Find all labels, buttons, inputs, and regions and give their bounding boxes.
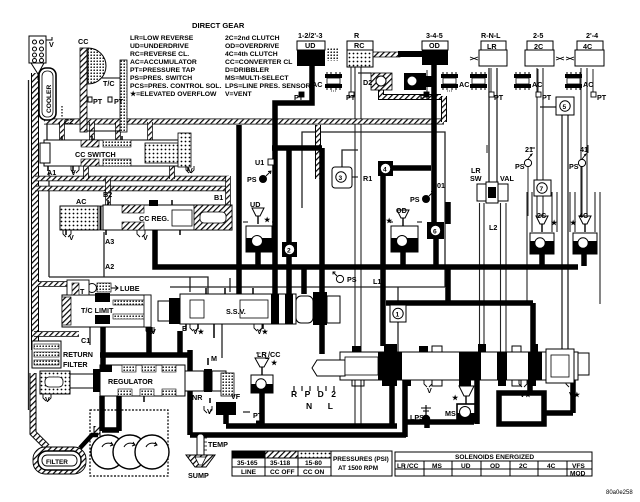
svg-text:AC=ACCUMULATOR: AC=ACCUMULATOR bbox=[130, 59, 197, 66]
svg-text:T/C: T/C bbox=[103, 79, 115, 88]
svg-text:V: V bbox=[71, 168, 76, 177]
svg-text:SOLENOIDS ENERGIZED: SOLENOIDS ENERGIZED bbox=[455, 454, 534, 461]
svg-text:2: 2 bbox=[287, 248, 291, 255]
wire L1 bbox=[170, 287, 445, 305]
svg-text:A2: A2 bbox=[105, 262, 114, 271]
svg-text:CC REG.: CC REG. bbox=[139, 214, 169, 223]
svg-text:V★: V★ bbox=[520, 390, 532, 399]
wire 2C overflow drop bbox=[539, 254, 545, 266]
svg-text:RETURN: RETURN bbox=[63, 350, 93, 359]
wire 2C PT to circled5 bbox=[540, 106, 556, 108]
svg-text:V: V bbox=[207, 407, 212, 416]
wire pcs line bbox=[190, 350, 226, 435]
svg-text:C2: C2 bbox=[64, 117, 73, 126]
wire hatched vertical x318 bbox=[315, 125, 321, 179]
T/C LIMIT valve bbox=[62, 280, 152, 332]
wire PT stubs top row bbox=[351, 67, 593, 97]
svg-text:3: 3 bbox=[339, 175, 343, 182]
svg-text:OD: OD bbox=[490, 463, 500, 470]
PT tick bottom bbox=[256, 421, 261, 426]
wire OD feed line bbox=[431, 65, 437, 222]
wire hatched jog x228 bbox=[225, 176, 231, 205]
svg-text:TEMP: TEMP bbox=[208, 440, 228, 449]
svg-text:CC=CONVERTER CL: CC=CONVERTER CL bbox=[225, 59, 292, 66]
CC SWITCH valve bbox=[40, 133, 191, 171]
svg-text:DIRECT GEAR: DIRECT GEAR bbox=[192, 21, 245, 30]
svg-text:1: 1 bbox=[396, 312, 400, 319]
wire circled6 down bbox=[436, 202, 448, 267]
svg-text:LR=LOW REVERSE: LR=LOW REVERSE bbox=[130, 35, 194, 42]
svg-text:A3: A3 bbox=[105, 237, 114, 246]
svg-text:PS: PS bbox=[410, 195, 420, 204]
svg-text:PT=PRESSURE TAP: PT=PRESSURE TAP bbox=[130, 67, 195, 74]
svg-text:2C=2nd CLUTCH: 2C=2nd CLUTCH bbox=[225, 35, 280, 42]
wire 4C overflow drop bbox=[581, 254, 587, 266]
svg-text:N L: N L bbox=[306, 401, 333, 411]
svg-text:L1: L1 bbox=[373, 277, 381, 286]
wire hatched bus y179 bbox=[35, 176, 229, 182]
svg-text:4C: 4C bbox=[547, 463, 556, 470]
AC accumulator symbols bbox=[325, 72, 582, 91]
svg-text:★: ★ bbox=[451, 393, 459, 402]
wire lube feed bbox=[67, 286, 88, 288]
svg-text:D=DRIBBLER: D=DRIBBLER bbox=[225, 67, 269, 74]
svg-text:RC: RC bbox=[354, 41, 364, 50]
PT tick squares bbox=[299, 92, 596, 97]
svg-text:M: M bbox=[211, 354, 217, 363]
svg-text:PS: PS bbox=[515, 162, 525, 171]
svg-text:LPS=LINE PRES. SENSOR: LPS=LINE PRES. SENSOR bbox=[225, 83, 311, 90]
wire lps line bbox=[424, 422, 430, 428]
svg-text:PT: PT bbox=[93, 97, 103, 106]
svg-text:T: T bbox=[80, 287, 85, 296]
svg-text:MS: MS bbox=[445, 409, 456, 418]
svg-text:AT 1500 RPM: AT 1500 RPM bbox=[338, 465, 378, 472]
svg-text:AC: AC bbox=[76, 197, 86, 206]
wire manual valve bottom loop bbox=[190, 380, 406, 437]
circled5 box bbox=[556, 97, 574, 115]
svg-text:A1: A1 bbox=[47, 168, 56, 177]
svg-text:★: ★ bbox=[569, 218, 577, 227]
D1 dribbler bbox=[404, 73, 433, 90]
OD clutch box bbox=[422, 41, 448, 65]
svg-text:PT: PT bbox=[294, 93, 304, 102]
svg-text:FILTER: FILTER bbox=[63, 360, 88, 369]
svg-text:V★: V★ bbox=[193, 327, 205, 336]
svg-text:VFS: VFS bbox=[572, 463, 585, 470]
wire RC branch to circled3 bbox=[342, 150, 358, 167]
svg-text:U1: U1 bbox=[255, 158, 264, 167]
svg-text:80a0e258: 80a0e258 bbox=[606, 490, 633, 496]
PCS solenoid bbox=[216, 402, 236, 415]
wire hatched return segment bbox=[34, 331, 79, 337]
wire regulator down left bbox=[102, 327, 119, 431]
svg-text:5: 5 bbox=[563, 104, 567, 111]
svg-text:V=VENT: V=VENT bbox=[225, 91, 252, 98]
vent box top-left bbox=[29, 36, 52, 80]
wire LRL/CC drop bbox=[259, 393, 265, 426]
svg-text:V: V bbox=[143, 233, 148, 242]
PIPES-HATCHED bbox=[33, 73, 444, 447]
svg-text:AC: AC bbox=[532, 80, 542, 89]
svg-text:4C: 4C bbox=[579, 211, 588, 220]
svg-text:PT: PT bbox=[494, 93, 504, 102]
svg-text:LINE: LINE bbox=[241, 469, 257, 476]
svg-text:REGULATOR: REGULATOR bbox=[108, 377, 154, 386]
svg-text:7: 7 bbox=[540, 186, 544, 193]
svg-text:★: ★ bbox=[270, 358, 278, 367]
svg-text:OD: OD bbox=[396, 206, 407, 215]
UD clutch box bbox=[297, 41, 338, 66]
svg-text:MS: MS bbox=[432, 463, 442, 470]
svg-text:CC OFF: CC OFF bbox=[270, 469, 295, 476]
wire hatched bus y122 bbox=[44, 119, 444, 125]
circled1 bbox=[390, 305, 406, 322]
wire line x239 bbox=[236, 125, 242, 294]
svg-text:OD: OD bbox=[429, 41, 440, 50]
svg-text:SUMP: SUMP bbox=[188, 471, 209, 480]
wire LPS stub bbox=[425, 405, 427, 415]
pressure table bbox=[232, 451, 392, 476]
PS circles 21/41 bbox=[487, 145, 588, 167]
svg-text:OD=OVERDRIVE: OD=OVERDRIVE bbox=[225, 43, 280, 50]
wire hatched stub x444 bbox=[441, 96, 447, 122]
svg-text:/CC: /CC bbox=[407, 463, 419, 470]
wire main line bus y267 bbox=[155, 230, 578, 267]
RC clutch box bbox=[347, 41, 373, 67]
svg-text:CC ON: CC ON bbox=[303, 469, 324, 476]
svg-text:35-165: 35-165 bbox=[237, 460, 258, 467]
svg-text:UD: UD bbox=[305, 41, 315, 50]
wire OD overflow drop bbox=[400, 252, 406, 267]
svg-text:2'-4: 2'-4 bbox=[586, 31, 598, 40]
wire 4C column down bbox=[581, 68, 587, 216]
svg-text:S.S.V.: S.S.V. bbox=[226, 307, 246, 316]
svg-text:VAL: VAL bbox=[500, 174, 514, 183]
svg-text:UD=UNDERDRIVE: UD=UNDERDRIVE bbox=[130, 43, 189, 50]
svg-text:PS: PS bbox=[347, 275, 357, 284]
wire LR valve to manual valve bbox=[480, 203, 507, 352]
LRL/CC overflow bbox=[251, 353, 273, 393]
svg-text:PT: PT bbox=[420, 93, 430, 102]
svg-text:35-118: 35-118 bbox=[270, 460, 291, 467]
wire circled1 to manual valve bbox=[397, 322, 399, 352]
PIPES-THICK bbox=[44, 65, 584, 437]
svg-text:AC: AC bbox=[583, 80, 593, 89]
REGULATOR valve bbox=[40, 358, 234, 403]
wire hatched T stub bbox=[38, 281, 67, 287]
AC dotted box + CC REG valve bbox=[60, 200, 232, 235]
svg-text:AC: AC bbox=[459, 80, 469, 89]
svg-text:V: V bbox=[188, 166, 193, 175]
wire NR/VF area bbox=[243, 393, 262, 412]
wire SSV top ports bbox=[190, 277, 230, 292]
4C overflow valve bbox=[573, 216, 597, 254]
wire 2C loop bbox=[527, 192, 557, 302]
svg-text:MS=MULTI-SELECT: MS=MULTI-SELECT bbox=[225, 75, 289, 82]
svg-text:★=ELEVATED OVERFLOW: ★=ELEVATED OVERFLOW bbox=[130, 90, 217, 98]
svg-text:D1: D1 bbox=[425, 77, 434, 86]
wire 4C loop bbox=[570, 192, 600, 304]
svg-text:V: V bbox=[49, 40, 54, 49]
UD overflow valve bbox=[243, 208, 277, 252]
svg-text:MOD: MOD bbox=[570, 471, 586, 478]
svg-text:CC SWITCH: CC SWITCH bbox=[75, 150, 116, 159]
svg-text:2C: 2C bbox=[534, 42, 543, 51]
svg-text:★: ★ bbox=[550, 218, 558, 227]
4C chamber bbox=[566, 41, 604, 66]
cooler bbox=[39, 68, 56, 120]
svg-text:01: 01 bbox=[437, 181, 445, 190]
svg-text:UD: UD bbox=[461, 463, 471, 470]
wire hatched bus y189 bbox=[35, 186, 227, 192]
2C overflow valve bbox=[530, 216, 554, 254]
circled7 bbox=[534, 180, 551, 196]
wire LR column down bbox=[489, 68, 497, 182]
svg-text:VF: VF bbox=[231, 392, 241, 401]
svg-text:CC: CC bbox=[78, 37, 88, 46]
svg-text:4C=4th CLUTCH: 4C=4th CLUTCH bbox=[225, 51, 278, 58]
svg-text:PCS: PCS bbox=[218, 408, 230, 414]
wire cooler feed left bbox=[46, 120, 48, 140]
OD overflow valve bbox=[388, 210, 422, 252]
circled3 box bbox=[332, 167, 358, 188]
FILTER capsule bbox=[33, 435, 98, 474]
PIPES-GRAY bbox=[29, 67, 601, 428]
svg-text:2C: 2C bbox=[537, 211, 546, 220]
svg-text:D2: D2 bbox=[363, 78, 372, 87]
svg-text:21: 21 bbox=[525, 145, 533, 154]
solenoid table bbox=[395, 452, 592, 476]
wire 01 gray loop bbox=[302, 132, 445, 287]
D2 dribbler bbox=[371, 73, 392, 90]
svg-text:LR: LR bbox=[487, 42, 497, 51]
RC-OD link pipe bbox=[373, 52, 400, 57]
T/C converter assembly bbox=[80, 48, 127, 132]
svg-text:LPS: LPS bbox=[410, 413, 424, 422]
circled4 bbox=[378, 161, 393, 176]
svg-text:PRESSURES (PSI): PRESSURES (PSI) bbox=[333, 456, 389, 463]
svg-text:C1: C1 bbox=[81, 336, 90, 345]
svg-text:V★: V★ bbox=[569, 390, 581, 399]
svg-text:PS=PRES. SWITCH: PS=PRES. SWITCH bbox=[130, 75, 192, 82]
MS valve bbox=[457, 381, 475, 422]
wire right bottom box bbox=[499, 380, 573, 424]
wire A2/A3 vertical bbox=[103, 232, 105, 277]
PS dots bbox=[259, 171, 434, 283]
wire E port down bbox=[177, 331, 183, 356]
svg-text:★: ★ bbox=[385, 216, 393, 225]
svg-text:V: V bbox=[427, 386, 432, 395]
C2 dotted stub bbox=[61, 106, 63, 118]
wire regulator top feed bbox=[100, 327, 190, 356]
svg-text:PT: PT bbox=[253, 411, 263, 420]
wire UD line jog bbox=[272, 148, 322, 354]
wire ms drain bbox=[403, 380, 477, 424]
wire left main hatched vertical bbox=[31, 73, 39, 350]
wire hatched D2 run bbox=[381, 90, 441, 97]
svg-text:V: V bbox=[69, 233, 74, 242]
svg-text:RC=REVERSE CL.: RC=REVERSE CL. bbox=[130, 51, 189, 58]
svg-text:PT: PT bbox=[542, 93, 552, 102]
svg-text:1-2/2'-3: 1-2/2'-3 bbox=[298, 31, 322, 40]
pump assembly bbox=[90, 410, 169, 476]
svg-text:LUBE: LUBE bbox=[120, 284, 140, 293]
svg-text:V: V bbox=[45, 395, 50, 404]
svg-text:B2: B2 bbox=[103, 190, 112, 199]
RETURN FILTER bbox=[32, 341, 61, 368]
svg-text:15-80: 15-80 bbox=[305, 460, 322, 467]
S.S.V. valve bbox=[158, 288, 340, 338]
svg-text:2-5: 2-5 bbox=[533, 31, 543, 40]
svg-text:PT: PT bbox=[346, 93, 356, 102]
svg-text:COOLER: COOLER bbox=[46, 85, 53, 113]
svg-text:R: R bbox=[354, 31, 360, 40]
wire outer left pipe bbox=[28, 80, 30, 410]
wire MS to manual valve bbox=[470, 380, 477, 407]
wire hatched bottom-left channel bbox=[33, 373, 47, 447]
svg-text:L2: L2 bbox=[489, 223, 497, 232]
svg-text:2C: 2C bbox=[519, 463, 528, 470]
svg-text:PS: PS bbox=[569, 162, 579, 171]
svg-text:R1: R1 bbox=[363, 174, 372, 183]
2C chamber bbox=[525, 41, 564, 66]
wire hatched pump inlet bbox=[94, 426, 101, 436]
LUBE bbox=[88, 283, 119, 293]
svg-text:PT: PT bbox=[114, 97, 124, 106]
svg-text:4: 4 bbox=[383, 167, 387, 174]
svg-text:41: 41 bbox=[580, 145, 588, 154]
wire C1 stub bbox=[89, 326, 91, 345]
svg-text:E: E bbox=[182, 324, 187, 333]
wire D2 connects bbox=[358, 73, 381, 97]
wire circled4 branch bbox=[383, 168, 431, 346]
wire right lower loop bbox=[386, 267, 533, 352]
circled2 bbox=[282, 242, 297, 257]
LPS sensor bbox=[421, 408, 431, 423]
wire UD overflow drop bbox=[255, 252, 261, 267]
svg-text:T/C LIMIT: T/C LIMIT bbox=[81, 306, 114, 315]
manual valve bbox=[294, 344, 589, 391]
sump funnel bbox=[186, 455, 215, 467]
wire UD feed line bbox=[275, 65, 312, 294]
svg-text:4C: 4C bbox=[583, 42, 592, 51]
wire PS21 stub bbox=[528, 167, 582, 216]
svg-text:PS: PS bbox=[247, 175, 257, 184]
svg-text:V: V bbox=[151, 327, 156, 336]
svg-text:3-4-5: 3-4-5 bbox=[426, 31, 443, 40]
svg-text:PCS=PRES. CONTROL SOL.: PCS=PRES. CONTROL SOL. bbox=[130, 83, 222, 90]
svg-text:AC: AC bbox=[312, 80, 322, 89]
wire A2 horizontal to PS/SSV bbox=[49, 277, 208, 294]
vent brackets bbox=[43, 166, 574, 413]
wire A1 down bbox=[48, 172, 50, 277]
svg-text:V★: V★ bbox=[257, 327, 269, 336]
LR SW VAL bbox=[477, 182, 508, 203]
svg-text:NR: NR bbox=[192, 393, 203, 402]
wire RC column down bbox=[355, 67, 361, 428]
svg-text:B1: B1 bbox=[214, 193, 223, 202]
thermometer TEMP bbox=[196, 434, 208, 466]
wire circled5 down bbox=[562, 115, 568, 352]
LR chamber bbox=[470, 41, 507, 66]
svg-text:R-N-L: R-N-L bbox=[481, 31, 501, 40]
wire regulator left stub bbox=[44, 377, 58, 383]
wire hatched stub CC switch top bbox=[62, 122, 172, 179]
U1 tick bbox=[268, 159, 274, 165]
svg-text:★: ★ bbox=[263, 215, 271, 224]
wire M port loop bbox=[221, 324, 223, 358]
svg-text:PT: PT bbox=[597, 93, 607, 102]
svg-text:FILTER: FILTER bbox=[46, 459, 68, 466]
circled6 bbox=[427, 222, 444, 239]
svg-text:SW: SW bbox=[470, 174, 482, 183]
svg-text:UD: UD bbox=[250, 200, 260, 209]
wire hatched B2 B1 stubs bbox=[105, 179, 111, 207]
svg-text:6: 6 bbox=[433, 229, 437, 236]
wire 2C column down bbox=[537, 68, 543, 216]
